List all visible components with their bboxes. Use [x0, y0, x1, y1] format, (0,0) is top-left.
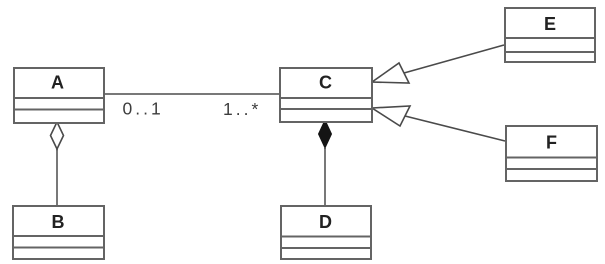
svg-text:A: A: [51, 73, 64, 93]
svg-text:1..*: 1..*: [223, 99, 261, 119]
svg-text:D: D: [319, 212, 332, 232]
svg-text:F: F: [546, 133, 557, 153]
svg-text:0..1: 0..1: [123, 99, 164, 119]
svg-text:E: E: [544, 14, 556, 34]
svg-text:C: C: [319, 73, 332, 93]
svg-text:B: B: [52, 212, 65, 232]
